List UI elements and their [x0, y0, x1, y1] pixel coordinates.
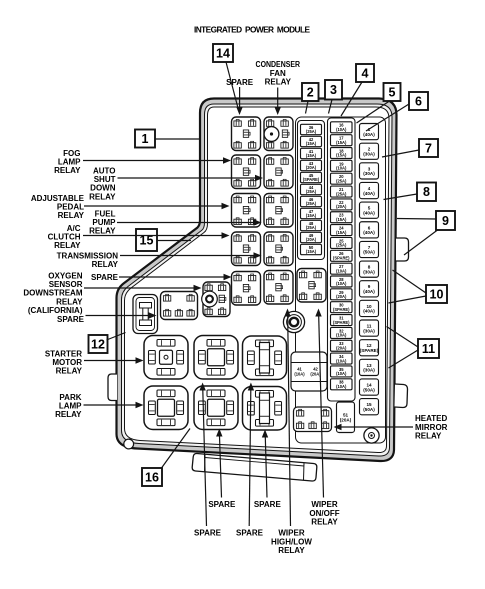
svg-text:(15A): (15A) — [336, 153, 347, 158]
svg-text:(10A): (10A) — [336, 371, 347, 376]
label OXYGEN SENSOR DOWNSTREAM RELAY (CALIFORNIA) — [23, 272, 83, 315]
leader callout 8 — [384, 194, 418, 200]
leader callout 10 (two lines) — [389, 270, 427, 303]
wiper on/off relay block — [297, 269, 326, 303]
maxi fuse 8 (30A) — [360, 261, 379, 277]
fuse 46 (25A) — [301, 196, 322, 206]
leader spare bottom r1c2 — [262, 430, 268, 498]
svg-text:(30A): (30A) — [363, 368, 375, 373]
fuse 28 (10A) — [331, 276, 353, 287]
svg-text:6: 6 — [415, 94, 422, 108]
svg-text:SPARE: SPARE — [254, 500, 282, 509]
relay block pointed by heated mirror leader — [294, 407, 332, 432]
label AUTO SHUT DOWN RELAY — [89, 167, 116, 202]
inner tray wall around fuse strip — [296, 117, 386, 443]
svg-text:(40A): (40A) — [363, 289, 375, 294]
svg-text:RELAY: RELAY — [415, 432, 442, 441]
heated mirror stud circle — [364, 428, 379, 443]
bottom tray inner lines — [205, 455, 305, 481]
callout 5 (fuse col C) — [384, 83, 401, 101]
fuse 35 (10A) — [331, 366, 353, 377]
right edge tab lower — [395, 384, 408, 408]
svg-text:11: 11 — [422, 342, 435, 356]
svg-text:(10A): (10A) — [336, 281, 347, 286]
label PARK LAMP RELAY — [55, 393, 82, 419]
svg-text:RELAY: RELAY — [56, 367, 83, 376]
svg-text:RELAY: RELAY — [92, 260, 119, 269]
svg-text:RELAY: RELAY — [58, 211, 85, 220]
leader fuel pump relay — [117, 219, 262, 225]
mounting hole bottom-left — [124, 439, 134, 449]
svg-text:2: 2 — [307, 85, 314, 99]
svg-text:(40A): (40A) — [363, 191, 375, 196]
fuse 22 (20A) — [331, 199, 353, 210]
svg-text:(50A): (50A) — [363, 387, 375, 392]
fuse column A container — [298, 121, 325, 260]
leader spare bottom r1c1 — [216, 429, 222, 498]
svg-text:16: 16 — [145, 470, 159, 484]
callout 4 (fuse block) — [356, 64, 374, 82]
fuse 41 (15A) — [301, 148, 322, 158]
leader starter motor relay — [84, 357, 144, 363]
spare relay (row 5 left) — [232, 272, 261, 306]
callout 2 (fuse col A) — [302, 83, 319, 101]
svg-text:(10A): (10A) — [336, 127, 347, 132]
leader callout 9 (two lines) — [397, 219, 438, 256]
wiper high/low relay block — [264, 271, 293, 305]
callout 14 (relay area) — [213, 44, 233, 62]
svg-text:(10A): (10A) — [336, 333, 347, 338]
label SPARE (top) — [226, 78, 254, 87]
callout 12 (left edge) — [89, 335, 108, 353]
svg-text:SPARE: SPARE — [194, 529, 222, 538]
fuse box outer contour with shaded rim — [117, 99, 397, 462]
fuse 26 (SPARE) — [331, 250, 353, 261]
fuse 20 (25A) — [331, 173, 353, 184]
leader callout 6 — [366, 104, 409, 131]
fuse 43 (20A) — [301, 160, 322, 170]
label HEATED MIRROR RELAY — [415, 414, 448, 441]
left edge tab — [108, 374, 117, 401]
svg-text:RELAY: RELAY — [54, 241, 81, 250]
bolt circle center — [283, 311, 304, 332]
maxi fuse 5 (40A) — [360, 202, 379, 218]
svg-text:RELAY: RELAY — [278, 546, 305, 555]
svg-text:SPARE: SPARE — [226, 78, 254, 87]
leader callout 12 — [107, 333, 126, 341]
spare relay (top row) — [232, 117, 261, 151]
fuse 32 (10A) — [331, 327, 353, 338]
svg-text:RELAY: RELAY — [265, 78, 292, 87]
callout 10 (right edge) — [426, 285, 447, 303]
svg-text:14: 14 — [216, 46, 230, 60]
svg-text:(10A): (10A) — [336, 166, 347, 171]
label SPARE (bottom r2 c1) — [194, 529, 222, 538]
callout 3 (fuse col B) — [325, 80, 342, 100]
svg-text:(15A): (15A) — [336, 230, 347, 235]
fuse 49 (20A) — [301, 232, 322, 242]
maxi fuse 10 (40A) — [360, 300, 379, 316]
park lamp relay — [144, 386, 188, 430]
maxi fuse 11 (30A) — [360, 320, 379, 336]
svg-text:4: 4 — [362, 66, 369, 80]
callout 7 (maxi fuse row) — [419, 139, 438, 157]
fuse 24 (15A) — [331, 225, 353, 236]
svg-text:(40A): (40A) — [363, 210, 375, 215]
svg-text:SPARE: SPARE — [208, 500, 236, 509]
svg-text:FAN: FAN — [270, 69, 286, 78]
svg-text:(SPARE): (SPARE) — [333, 307, 350, 312]
svg-text:12: 12 — [91, 337, 105, 351]
fuse 38 (10A) — [331, 379, 353, 390]
svg-text:(10A): (10A) — [336, 268, 347, 273]
fuse 27 (10A) — [331, 263, 353, 274]
fuse 31 (SPARE) — [331, 315, 353, 326]
fuse 23 (15A) — [331, 212, 353, 223]
callout 6 (maxi fuse 1) — [409, 92, 428, 110]
fuse 21 (25A) — [331, 186, 353, 197]
label TRANSMISSION RELAY — [57, 252, 119, 270]
leader callout 11 (two lines) — [387, 327, 419, 369]
fuse block 41/42 — [291, 352, 327, 391]
leader wiper on/off relay — [315, 309, 323, 498]
svg-text:(15A): (15A) — [306, 153, 317, 158]
callout 1 (body) — [135, 130, 155, 148]
spare relay (row2 col2) — [194, 386, 238, 430]
leader callout 14 — [226, 62, 243, 115]
svg-text:(25A): (25A) — [336, 191, 347, 196]
label FOG LAMP RELAY — [54, 149, 81, 175]
svg-text:(SPARE): (SPARE) — [333, 320, 350, 325]
leader adjustable pedal relay — [84, 203, 230, 209]
svg-text:(15A): (15A) — [306, 141, 317, 146]
transmission relay — [264, 232, 293, 266]
leader fog lamp relay — [83, 157, 231, 163]
fuse 48 (25A) — [301, 220, 322, 230]
svg-text:(25A): (25A) — [306, 201, 317, 206]
svg-text:(40A): (40A) — [363, 132, 375, 137]
maxi fuse 3 (30A) — [360, 163, 379, 179]
fuse 17 (15A) — [331, 135, 353, 146]
leader callout 3 — [329, 100, 333, 114]
fuse 42 (15A) — [301, 136, 322, 146]
leader auto shut down relay — [118, 175, 264, 181]
fuse box rim line 2 — [122, 104, 393, 456]
label WIPER ON/OFF RELAY — [309, 500, 339, 527]
fuse 30 (SPARE) — [331, 302, 353, 313]
spare relay socket (vertical, left) — [133, 295, 158, 334]
svg-text:(SPARE): (SPARE) — [303, 177, 320, 182]
maxi fuse 4 (40A) — [360, 182, 379, 198]
leader oxygen sensor relay — [84, 285, 202, 291]
callout 16 (bottom edge) — [142, 468, 162, 486]
svg-text:(50A): (50A) — [363, 407, 375, 412]
svg-text:9: 9 — [442, 214, 449, 228]
svg-text:SPARE: SPARE — [91, 273, 119, 282]
maxi fuse 1 (40A) — [360, 124, 379, 140]
label STARTER MOTOR RELAY — [45, 350, 83, 376]
fuse 50 (15A) — [301, 244, 322, 254]
oxygen sensor downstream relay (california) — [202, 282, 230, 317]
svg-text:10: 10 — [430, 287, 444, 301]
label SPARE (bottom r2 c2) — [236, 529, 264, 538]
svg-text:(15A): (15A) — [306, 249, 317, 254]
leader callout 5 — [357, 101, 390, 123]
svg-text:(40A): (40A) — [363, 230, 375, 235]
maxi fuse 13 (30A) — [360, 359, 379, 375]
leader callout 4 — [341, 82, 362, 116]
svg-text:8: 8 — [423, 185, 430, 199]
maxi fuse 2 (30A) — [360, 143, 379, 159]
leader callout 1 — [155, 138, 199, 140]
maxi fuse 9 (40A) — [360, 281, 379, 297]
svg-text:RELAY: RELAY — [311, 518, 338, 527]
maxi fuse 12 (SPARE) — [360, 340, 379, 356]
leader condenser fan relay — [275, 88, 281, 116]
svg-text:(25A): (25A) — [306, 129, 317, 134]
svg-text:(CALIFORNIA): (CALIFORNIA) — [28, 306, 83, 315]
svg-text:(10A): (10A) — [336, 358, 347, 363]
fuse 45 (SPARE) — [301, 172, 322, 182]
svg-text:(25A): (25A) — [336, 243, 347, 248]
svg-text:(15A): (15A) — [336, 217, 347, 222]
svg-text:(40A): (40A) — [363, 309, 375, 314]
svg-text:1: 1 — [142, 132, 149, 146]
svg-text:RELAY: RELAY — [89, 227, 116, 236]
svg-text:WIPER: WIPER — [311, 500, 337, 509]
svg-text:7: 7 — [425, 141, 432, 155]
svg-text:(30A): (30A) — [363, 328, 375, 333]
leader callout 2 — [306, 101, 309, 114]
leader a/c clutch relay — [83, 232, 230, 238]
maxi fuse 15 (50A) — [360, 399, 379, 415]
maxi fuse 7 (50A) — [360, 241, 379, 257]
fuse 33 (20A) — [331, 340, 353, 351]
adjustable pedal relay — [232, 194, 261, 228]
callout 15 (left edge mid) — [136, 229, 157, 251]
bottom tray — [192, 453, 317, 481]
svg-text:(SPARE): (SPARE) — [333, 256, 350, 261]
leader callout 7 — [382, 150, 419, 157]
fog lamp relay — [232, 155, 261, 189]
leader transmission relay — [120, 252, 262, 258]
svg-text:RELAY: RELAY — [89, 192, 116, 201]
svg-text:CONDENSER: CONDENSER — [256, 60, 301, 69]
maxi fuse 6 (40A) — [360, 222, 379, 238]
leader spare bottom r2c2 — [248, 383, 254, 527]
maxi fuse 14 (50A) — [360, 379, 379, 395]
svg-text:(20A): (20A) — [306, 237, 317, 242]
label A/C CLUTCH RELAY — [48, 224, 82, 250]
callout 11 (right edge lower) — [418, 339, 439, 358]
fuel pump relay — [264, 194, 293, 228]
fuse column B container — [328, 118, 356, 401]
svg-text:INTEGRATED POWER MODULE: INTEGRATED POWER MODULE — [194, 25, 310, 35]
label CONDENSER FAN RELAY — [256, 60, 301, 87]
condenser fan relay — [264, 117, 293, 151]
fuse 51 (20A) — [337, 402, 355, 433]
label FUEL PUMP RELAY — [89, 210, 116, 236]
svg-text:(30A): (30A) — [363, 151, 375, 156]
label WIPER HIGH/LOW RELAY — [271, 529, 312, 556]
auto shut down relay — [264, 155, 293, 189]
leader spare mid upper — [119, 274, 232, 280]
spare relay block (wide, middle) — [161, 292, 198, 320]
svg-text:(25A): (25A) — [336, 178, 347, 183]
svg-text:HEATED: HEATED — [415, 414, 448, 423]
spare relay (row1 col3) — [243, 336, 287, 380]
fuse 29 (20A) — [331, 289, 353, 300]
svg-text:(25A): (25A) — [306, 189, 317, 194]
fuse box inner contour — [125, 107, 390, 453]
starter motor relay — [144, 336, 188, 380]
svg-text:(15A): (15A) — [306, 213, 317, 218]
svg-text:(30A): (30A) — [363, 269, 375, 274]
svg-text:5: 5 — [389, 85, 396, 99]
svg-text:(10A): (10A) — [294, 372, 305, 377]
fuse 19 (10A) — [331, 160, 353, 171]
label ADJUSTABLE PEDAL RELAY — [31, 194, 85, 220]
svg-text:WIPER: WIPER — [278, 529, 304, 538]
svg-text:(20A): (20A) — [340, 417, 352, 422]
svg-text:3: 3 — [330, 83, 337, 97]
svg-text:HIGH/LOW: HIGH/LOW — [271, 537, 312, 546]
leader spare top — [239, 87, 241, 108]
leader callout 16 — [162, 429, 191, 469]
svg-text:SPARE: SPARE — [57, 315, 85, 324]
leader wiper high/low relay — [284, 309, 290, 527]
fuse 44 (25A) — [301, 184, 322, 194]
svg-text:(20A): (20A) — [336, 345, 347, 350]
leader spare bottom r2c1 — [199, 383, 206, 527]
fuse 18 (15A) — [331, 148, 353, 159]
a/c clutch relay — [232, 232, 261, 266]
svg-text:(25A): (25A) — [306, 225, 317, 230]
svg-text:(20A): (20A) — [336, 204, 347, 209]
leader callout 15 — [157, 240, 191, 242]
label SPARE (bottom r1 c1) — [208, 500, 236, 509]
svg-text:(30A): (30A) — [363, 171, 375, 176]
spare relay (row2 col3) — [243, 387, 287, 431]
label SPARE (bottom r1 c2) — [254, 500, 282, 509]
svg-text:RELAY: RELAY — [54, 166, 81, 175]
fuse 25 (25A) — [331, 237, 353, 248]
label SPARE (mid lower) — [57, 315, 85, 324]
fuse 36 (25A) — [301, 124, 322, 134]
svg-text:MIRROR: MIRROR — [415, 423, 448, 432]
svg-text:(10A): (10A) — [336, 384, 347, 389]
callout 9 (right tab) — [436, 211, 455, 230]
svg-text:(SPARE): (SPARE) — [360, 348, 379, 353]
leader heated mirror relay — [334, 424, 414, 430]
svg-text:RELAY: RELAY — [55, 410, 82, 419]
svg-text:ON/OFF: ON/OFF — [309, 509, 339, 518]
svg-text:(20A): (20A) — [336, 294, 347, 299]
right edge tab upper — [396, 238, 409, 261]
svg-text:SPARE: SPARE — [236, 529, 264, 538]
leader park lamp relay — [84, 402, 144, 408]
fuse 34 (10A) — [331, 353, 353, 364]
svg-text:(15A): (15A) — [336, 140, 347, 145]
svg-text:(50A): (50A) — [363, 250, 375, 255]
fuse 16 (10A) — [331, 122, 353, 133]
fuse 47 (15A) — [301, 208, 322, 218]
leader spare mid lower — [86, 312, 157, 318]
spare relay (row1 col2) — [194, 336, 238, 380]
svg-text:(20A): (20A) — [306, 165, 317, 170]
callout 8 (maxi fuse row) — [417, 183, 436, 202]
label SPARE (mid upper) — [91, 273, 119, 282]
